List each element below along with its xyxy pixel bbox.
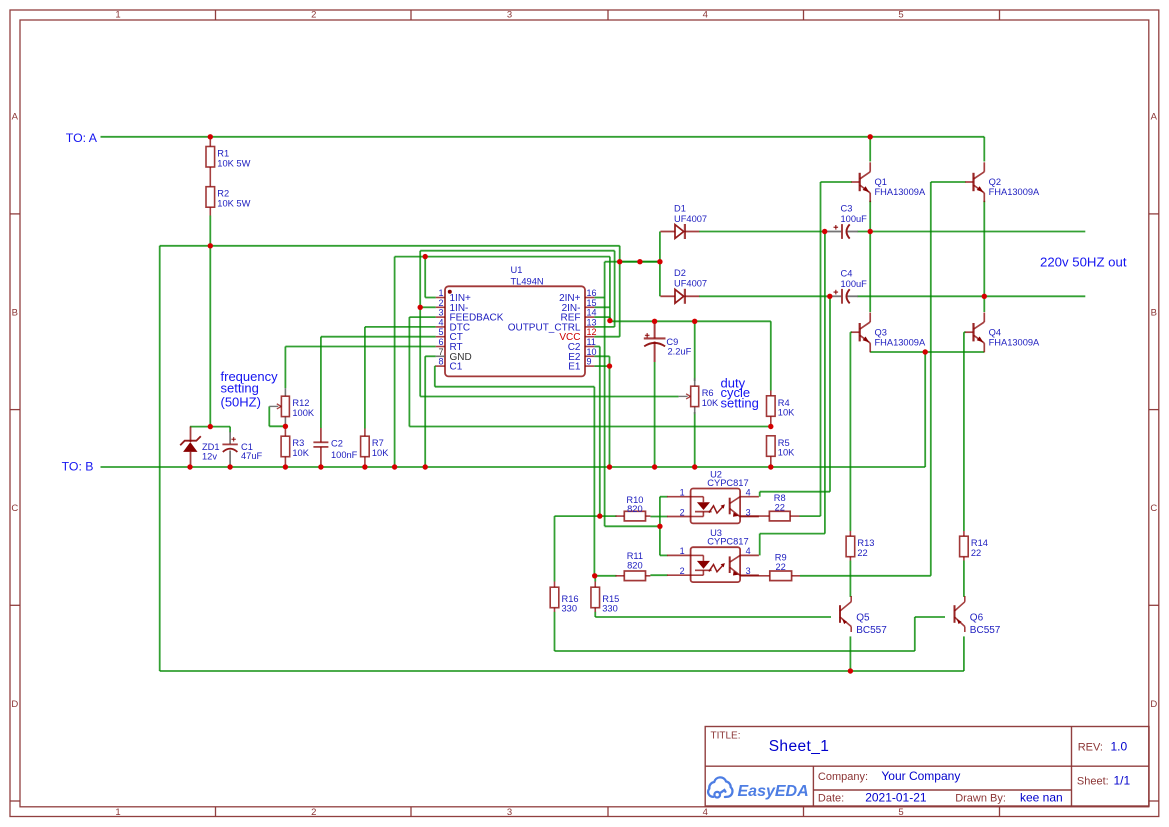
svg-text:Date:: Date: <box>818 793 844 805</box>
svg-text:7: 7 <box>438 347 443 357</box>
svg-text:D: D <box>1150 699 1157 710</box>
svg-text:TL494N: TL494N <box>511 277 544 287</box>
svg-text:Sheet_1: Sheet_1 <box>769 738 830 755</box>
svg-text:(50HZ): (50HZ) <box>221 394 261 409</box>
svg-text:9: 9 <box>587 357 592 367</box>
svg-text:1: 1 <box>438 288 443 298</box>
svg-text:2: 2 <box>438 298 443 308</box>
svg-text:8: 8 <box>438 357 443 367</box>
svg-text:4: 4 <box>438 317 443 327</box>
svg-text:BC557: BC557 <box>856 625 887 636</box>
svg-text:Sheet:: Sheet: <box>1077 776 1109 788</box>
svg-text:U1: U1 <box>511 265 523 275</box>
svg-text:330: 330 <box>562 604 578 614</box>
svg-text:R1: R1 <box>217 149 229 159</box>
svg-text:22: 22 <box>971 548 981 558</box>
svg-text:C1: C1 <box>450 362 463 373</box>
svg-text:10K: 10K <box>372 448 389 458</box>
svg-text:R11: R11 <box>627 551 643 561</box>
svg-text:10K 5W: 10K 5W <box>217 158 250 168</box>
svg-text:100uF: 100uF <box>841 214 868 224</box>
svg-text:330: 330 <box>602 604 618 614</box>
svg-text:FHA13009A: FHA13009A <box>875 187 926 197</box>
svg-text:2: 2 <box>680 507 685 517</box>
svg-text:Q3: Q3 <box>875 327 887 337</box>
svg-text:10: 10 <box>587 347 597 357</box>
svg-text:D2: D2 <box>674 268 686 278</box>
svg-text:R4: R4 <box>778 398 790 408</box>
svg-text:1: 1 <box>115 10 120 21</box>
svg-text:Q4: Q4 <box>989 327 1001 337</box>
svg-text:R15: R15 <box>602 594 619 604</box>
svg-text:R2: R2 <box>217 189 229 199</box>
svg-text:FHA13009A: FHA13009A <box>989 337 1040 347</box>
svg-text:4: 4 <box>703 807 708 818</box>
svg-text:3: 3 <box>746 507 751 517</box>
svg-text:kee nan: kee nan <box>1020 791 1063 805</box>
svg-text:4: 4 <box>746 546 751 556</box>
svg-text:10K: 10K <box>778 408 795 418</box>
svg-text:1: 1 <box>115 807 120 818</box>
svg-text:C: C <box>11 503 18 514</box>
svg-text:15: 15 <box>587 298 597 308</box>
svg-text:R16: R16 <box>562 594 579 604</box>
svg-text:5: 5 <box>898 10 903 21</box>
svg-text:10K: 10K <box>778 448 795 458</box>
svg-text:C2: C2 <box>331 439 343 449</box>
svg-text:setting: setting <box>721 396 759 411</box>
svg-text:EasyEDA: EasyEDA <box>738 783 809 800</box>
svg-text:C4: C4 <box>841 268 853 278</box>
svg-text:E1: E1 <box>568 362 581 373</box>
svg-text:10K: 10K <box>702 398 719 408</box>
svg-text:10K: 10K <box>292 448 309 458</box>
svg-text:Company:: Company: <box>818 771 868 783</box>
svg-text:Q6: Q6 <box>970 613 984 624</box>
svg-text:Q1: Q1 <box>875 177 887 187</box>
svg-text:R3: R3 <box>292 438 304 448</box>
svg-text:22: 22 <box>775 502 785 512</box>
svg-text:5: 5 <box>438 327 443 337</box>
svg-text:R5: R5 <box>778 438 790 448</box>
svg-text:R7: R7 <box>372 438 384 448</box>
svg-text:FHA13009A: FHA13009A <box>989 187 1040 197</box>
svg-text:5: 5 <box>898 807 903 818</box>
svg-text:3: 3 <box>507 10 512 21</box>
svg-text:FHA13009A: FHA13009A <box>875 337 926 347</box>
svg-text:11: 11 <box>587 337 596 347</box>
svg-text:C9: C9 <box>666 337 678 347</box>
svg-text:12: 12 <box>587 327 597 337</box>
svg-text:22: 22 <box>857 548 867 558</box>
svg-text:100uF: 100uF <box>841 279 868 289</box>
svg-text:2021-01-21: 2021-01-21 <box>865 791 927 805</box>
svg-text:12v: 12v <box>202 451 217 461</box>
svg-text:47uF: 47uF <box>241 451 263 461</box>
svg-text:1/1: 1/1 <box>1114 774 1131 788</box>
svg-text:1: 1 <box>680 488 685 498</box>
svg-text:22: 22 <box>776 562 786 572</box>
svg-text:2.2uF: 2.2uF <box>668 346 692 356</box>
svg-text:R13: R13 <box>857 538 874 548</box>
svg-text:C3: C3 <box>841 204 853 214</box>
svg-text:2: 2 <box>311 10 316 21</box>
svg-text:100nF: 100nF <box>331 450 358 460</box>
svg-text:Q2: Q2 <box>989 177 1001 187</box>
svg-text:A: A <box>12 112 19 123</box>
svg-text:TO: A: TO: A <box>66 131 98 145</box>
svg-text:B: B <box>12 307 18 318</box>
svg-text:3: 3 <box>746 566 751 576</box>
svg-text:TITLE:: TITLE: <box>711 731 741 742</box>
svg-text:Drawn By:: Drawn By: <box>955 793 1006 805</box>
svg-text:R12: R12 <box>292 398 309 408</box>
svg-text:14: 14 <box>587 308 597 318</box>
svg-text:C: C <box>1150 503 1157 514</box>
svg-text:Your Company: Your Company <box>881 769 960 783</box>
svg-text:6: 6 <box>438 337 443 347</box>
svg-text:10K 5W: 10K 5W <box>217 199 250 209</box>
svg-text:100K: 100K <box>292 408 315 418</box>
svg-text:CYPC817: CYPC817 <box>707 478 748 488</box>
svg-text:4: 4 <box>703 10 708 21</box>
svg-text:R14: R14 <box>971 538 988 548</box>
svg-text:UF4007: UF4007 <box>674 279 707 289</box>
svg-text:4: 4 <box>746 488 751 498</box>
svg-text:B: B <box>1151 307 1157 318</box>
svg-text:setting: setting <box>221 380 259 395</box>
svg-text:Q5: Q5 <box>856 613 870 624</box>
svg-text:D: D <box>11 699 18 710</box>
svg-text:13: 13 <box>587 317 597 327</box>
svg-text:R6: R6 <box>702 388 714 398</box>
svg-text:A: A <box>1151 112 1158 123</box>
svg-text:16: 16 <box>587 288 597 298</box>
svg-text:2: 2 <box>680 566 685 576</box>
svg-text:D1: D1 <box>674 203 686 213</box>
svg-text:2: 2 <box>311 807 316 818</box>
svg-text:220v 50HZ out: 220v 50HZ out <box>1040 255 1127 270</box>
svg-text:820: 820 <box>627 504 643 514</box>
svg-text:CYPC817: CYPC817 <box>707 537 748 547</box>
svg-text:1.0: 1.0 <box>1111 740 1128 754</box>
svg-text:BC557: BC557 <box>970 625 1001 636</box>
svg-text:REV:: REV: <box>1078 742 1103 754</box>
svg-text:UF4007: UF4007 <box>674 214 707 224</box>
svg-text:820: 820 <box>627 561 643 571</box>
svg-text:TO: B: TO: B <box>62 460 94 474</box>
svg-text:1: 1 <box>680 546 685 556</box>
svg-text:3: 3 <box>438 308 443 318</box>
svg-text:3: 3 <box>507 807 512 818</box>
